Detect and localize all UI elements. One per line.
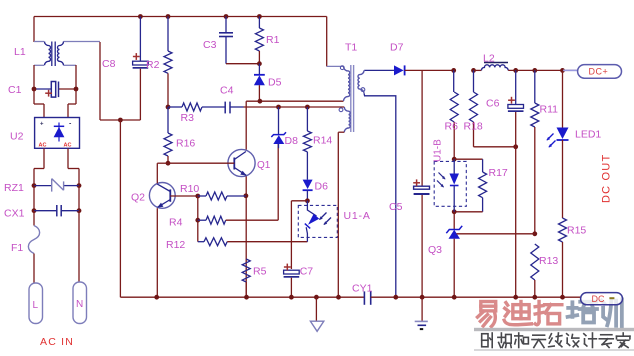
svg-text:R14: R14	[313, 135, 332, 147]
svg-text:C5: C5	[389, 201, 403, 213]
svg-text:T1: T1	[345, 42, 357, 54]
svg-text:R11: R11	[540, 104, 559, 116]
svg-text:Q1: Q1	[257, 160, 271, 171]
svg-text:D5: D5	[268, 77, 282, 89]
svg-text:U1-B: U1-B	[433, 139, 444, 162]
svg-text:C8: C8	[102, 58, 116, 70]
svg-text:CY1: CY1	[352, 283, 373, 295]
svg-text:Q3: Q3	[428, 244, 442, 256]
svg-text:DC+: DC+	[589, 67, 609, 77]
svg-text:C3: C3	[203, 39, 217, 51]
svg-text:R16: R16	[176, 138, 195, 150]
svg-text:R6: R6	[445, 121, 459, 133]
svg-text:R4: R4	[169, 217, 183, 229]
svg-text:D8: D8	[285, 135, 299, 147]
svg-text:L1: L1	[14, 46, 26, 58]
svg-text:R17: R17	[489, 167, 508, 179]
svg-text:AC: AC	[64, 143, 72, 149]
svg-text:R10: R10	[180, 183, 199, 195]
svg-text:DC: DC	[592, 294, 605, 304]
svg-text:R13: R13	[539, 255, 558, 267]
svg-text:D6: D6	[315, 181, 329, 193]
svg-text:C6: C6	[486, 98, 500, 110]
svg-text:R2: R2	[146, 59, 160, 71]
svg-text:DC OUT: DC OUT	[601, 154, 613, 203]
svg-text:R1: R1	[266, 34, 280, 46]
svg-text:U2: U2	[10, 131, 24, 143]
svg-text:R12: R12	[166, 239, 185, 251]
svg-text:LED1: LED1	[575, 129, 601, 141]
svg-text:R18: R18	[464, 121, 483, 133]
svg-text:R15: R15	[567, 225, 586, 237]
svg-text:RZ1: RZ1	[4, 182, 24, 194]
svg-text:R5: R5	[253, 266, 267, 278]
svg-text:AC: AC	[39, 143, 47, 149]
svg-text:U1-A: U1-A	[344, 210, 371, 222]
svg-text:L: L	[33, 300, 39, 311]
svg-text:C4: C4	[220, 85, 234, 97]
svg-text:D7: D7	[390, 42, 404, 54]
svg-text:CX1: CX1	[4, 207, 25, 219]
svg-text:C1: C1	[8, 84, 22, 96]
svg-text:C7: C7	[300, 266, 314, 278]
svg-text:R3: R3	[181, 112, 195, 124]
svg-text:N: N	[76, 299, 83, 310]
svg-text:Q2: Q2	[131, 192, 145, 204]
svg-text:+: +	[40, 122, 44, 128]
svg-text:AC IN: AC IN	[40, 336, 74, 348]
svg-text:F1: F1	[11, 242, 23, 254]
